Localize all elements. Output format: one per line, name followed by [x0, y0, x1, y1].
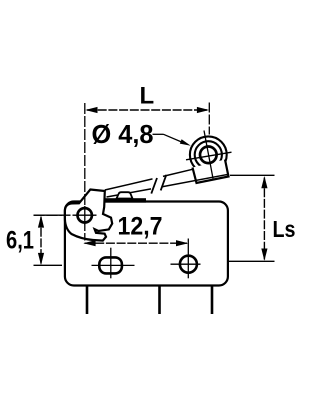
leader line from 4,8 horizontal [153, 133, 164, 135]
pivot centerline horizontal [34, 214, 99, 216]
lever lower edge line right part [162, 174, 230, 187]
arrowhead 12,7 right [176, 240, 188, 246]
roller middle circle [195, 141, 222, 168]
pivot centerline vertical [84, 103, 86, 241]
left hole [99, 257, 122, 273]
pin 2 [158, 286, 161, 315]
pivot crosshair h [76, 214, 95, 216]
pivot crosshair v [84, 206, 86, 225]
plunger dome [117, 192, 133, 198]
roller outer circle [190, 136, 227, 173]
dimension line 12,7 [85, 242, 188, 244]
extension line right (roller centerline vertical) [208, 103, 210, 135]
arrowhead 6,1 bottom [38, 253, 44, 265]
switch body [65, 202, 228, 286]
Ls extension line bottom [228, 260, 275, 262]
svg-text:L: L [140, 83, 155, 110]
right hole centerline h [171, 263, 201, 265]
lever upper edge line [105, 179, 153, 190]
right hole centerline v [187, 239, 189, 279]
svg-text:12,7: 12,7 [118, 213, 163, 241]
lever break mark 2 [161, 175, 167, 191]
lever break mark 1 [151, 178, 157, 194]
lever lower edge line [107, 189, 152, 197]
arrowhead 12,7 left [83, 240, 95, 246]
left hole centerline v [110, 248, 112, 279]
pin 3 [211, 286, 214, 315]
leader arrowhead [180, 139, 191, 146]
lever upper edge line right part [163, 169, 193, 176]
dimension line Ls [263, 178, 265, 260]
pivot hole [78, 208, 92, 222]
roller fork [193, 160, 229, 184]
right hole [180, 256, 197, 273]
arrowhead Ls top [261, 176, 267, 188]
arrowhead L right [197, 107, 209, 113]
roller centerline vertical [204, 131, 213, 179]
Ls extension line top [230, 174, 275, 176]
roller inner circle [200, 147, 217, 164]
arrowhead Ls bottom [261, 249, 267, 261]
dimension line 6,1 [40, 217, 42, 264]
svg-text:Ls: Ls [273, 216, 296, 242]
arrowhead L left [85, 107, 97, 113]
leader line slanted [164, 134, 187, 144]
pin 1 [86, 286, 89, 315]
dimension line L [87, 109, 207, 111]
plunger base strip [106, 198, 147, 202]
left hole centerline h [92, 264, 135, 266]
svg-text:6,1: 6,1 [6, 227, 34, 255]
roller centerline horizontal [186, 152, 232, 160]
svg-text:Ø 4,8: Ø 4,8 [92, 119, 154, 149]
arrowhead 6,1 top [38, 215, 44, 227]
6,1 extension line top [34, 214, 63, 216]
6,1 extension line bottom [34, 264, 63, 266]
lever bracket and foot [65, 190, 112, 241]
